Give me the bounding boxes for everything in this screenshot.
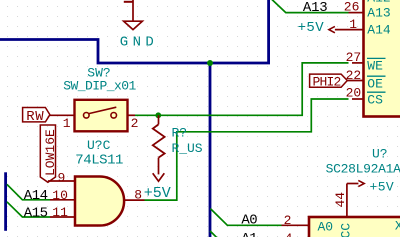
switch pin 1 stub [50, 114, 75, 116]
svg-text:SC28L92A1A: SC28L92A1A [326, 161, 400, 176]
global label RW [23, 108, 50, 125]
junction bus T [207, 60, 213, 66]
wire CS net: pin8 to CS [145, 99, 349, 200]
svg-text:+5V: +5V [370, 180, 395, 195]
chip pin 22 stub (OE) [347, 80, 363, 82]
svg-text:X1: X1 [395, 218, 400, 233]
svg-text:A0: A0 [241, 213, 257, 229]
chip U? SC28L92 (bottom right) body [309, 217, 400, 240]
svg-text:A14: A14 [367, 23, 391, 38]
chip pin 27 stub (WE) [352, 62, 364, 64]
svg-text:11: 11 [52, 205, 68, 220]
chip pin 1 stub / +5V power arrow [298, 20, 364, 36]
svg-text:20: 20 [346, 86, 362, 101]
switch lever [89, 107, 117, 113]
wire A1 bus entry (clipped) [210, 231, 217, 238]
svg-text:R?: R? [172, 126, 188, 141]
svg-text:A14: A14 [24, 188, 48, 204]
pin name CS with overline [367, 92, 386, 107]
svg-text:44: 44 [333, 192, 348, 208]
gate pin 10 stub [50, 199, 75, 201]
svg-text:27: 27 [346, 50, 362, 65]
svg-text:1: 1 [349, 17, 357, 32]
wire A0 bus entry [210, 209, 281, 226]
svg-text:+5V: +5V [144, 185, 171, 202]
svg-text:9: 9 [58, 170, 66, 185]
gate pin 9 stub [48, 180, 75, 182]
pin name OE with overline [367, 76, 386, 91]
svg-text:74LS11: 74LS11 [75, 152, 123, 168]
svg-text:8: 8 [134, 187, 142, 202]
power GND top [120, 0, 158, 51]
pin 44 stub (VCC) / +5V power arrow [347, 180, 394, 218]
svg-text:26: 26 [344, 0, 360, 14]
svg-text:A15: A15 [24, 205, 48, 221]
gate pin 11 stub [50, 216, 75, 218]
global label PHI2 [310, 74, 348, 89]
svg-text:WE: WE [367, 59, 383, 74]
chip pin 20 stub (CS) [352, 98, 364, 100]
svg-text:U?C: U?C [87, 138, 111, 153]
svg-text:A13: A13 [367, 6, 390, 21]
bus left vertical [4, 172, 7, 231]
svg-text:1: 1 [63, 116, 71, 131]
switch SW? body [75, 100, 128, 132]
wire A15 bus entry [7, 202, 50, 217]
gate U?C 74LS11 body [75, 177, 124, 226]
junction switch/resistor [155, 112, 161, 118]
gate pin 8 stub [124, 199, 144, 201]
svg-text:CC: CC [338, 223, 353, 237]
bus main (blue) [0, 0, 269, 63]
pin 2 stub (A0) [282, 224, 310, 226]
wire switch pin2 to WE [135, 63, 349, 115]
svg-text:OE: OE [367, 76, 383, 91]
svg-text:PHI2: PHI2 [313, 74, 341, 89]
switch pin 2 stub [128, 114, 136, 116]
wire A14 bus entry [7, 184, 50, 200]
power +5V below resistor [144, 158, 171, 203]
svg-text:10: 10 [52, 188, 68, 203]
svg-text:SW_DIP_x01: SW_DIP_x01 [63, 79, 136, 94]
switch contact circles [84, 113, 90, 119]
svg-text:+5V: +5V [298, 20, 325, 36]
svg-text:R_US: R_US [172, 141, 203, 156]
svg-text:2: 2 [131, 116, 139, 131]
svg-text:U?: U? [372, 147, 388, 162]
svg-text:GND: GND [120, 35, 158, 51]
wire A13 bus entry [269, 0, 348, 13]
svg-text:A0: A0 [318, 219, 334, 234]
global label LOW16E [40, 125, 58, 182]
svg-text:2: 2 [284, 213, 292, 228]
svg-text:A1: A1 [241, 231, 257, 237]
svg-text:LOW16E: LOW16E [43, 129, 58, 176]
svg-text:A13: A13 [303, 0, 328, 16]
chip pin 26 stub (A13) [349, 12, 364, 14]
pin name WE with overline [367, 58, 386, 73]
chip U? (top right) body [364, 0, 400, 117]
svg-text:CS: CS [367, 92, 383, 107]
resistor R? [153, 115, 165, 157]
bus branch down at x=210 [209, 63, 212, 238]
svg-text:4: 4 [285, 231, 293, 237]
svg-text:RW: RW [26, 109, 44, 125]
